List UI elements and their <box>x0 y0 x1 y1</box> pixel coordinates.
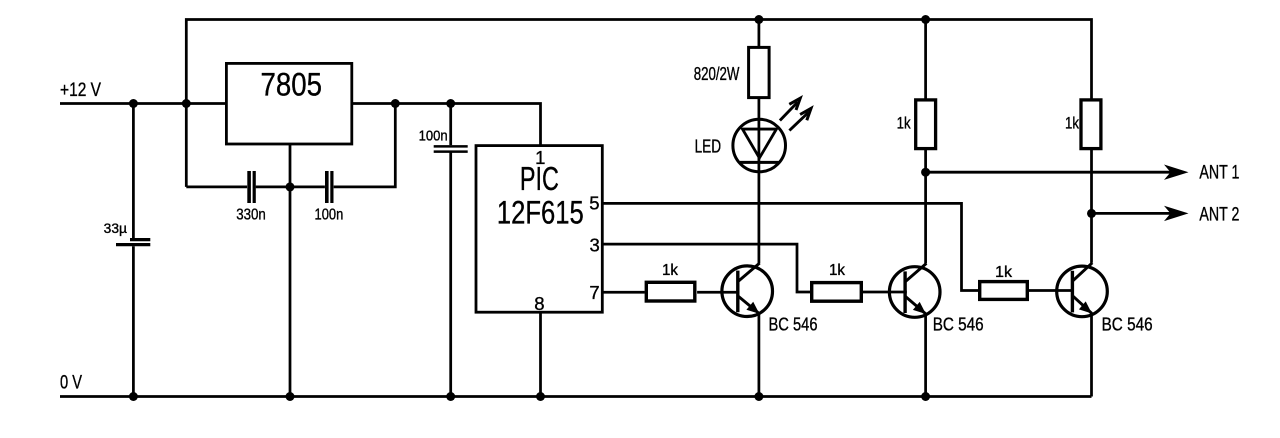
wire 7805 ground pin <box>289 144 292 397</box>
wire ANT2 output <box>1092 205 1240 226</box>
svg-text:BC 546: BC 546 <box>769 313 818 334</box>
capacitor C1 33µ <box>104 221 151 245</box>
transistor Q3 BC546 <box>1057 263 1153 335</box>
svg-text:7: 7 <box>589 282 599 303</box>
svg-text:ANT 2: ANT 2 <box>1199 205 1239 226</box>
junction dot at bypass rail / ground pin <box>286 182 295 191</box>
wire PIC pin5 to Q3 base resistor <box>602 203 978 290</box>
svg-text:12F615: 12F615 <box>497 194 584 230</box>
wire R4 to Q3 base <box>1029 289 1074 292</box>
wire LED cathode to Q1 collector <box>758 98 761 263</box>
svg-text:5: 5 <box>589 192 599 213</box>
svg-text:1k: 1k <box>829 262 846 279</box>
svg-text:1k: 1k <box>662 262 679 279</box>
junction dot ground / 33u <box>129 392 138 401</box>
resistor R3 1k (Q2 base) <box>812 262 862 301</box>
resistor R5 1k (ANT1 pullup) <box>897 100 936 149</box>
wire bypass rail under 7805 <box>186 186 247 189</box>
wire Q2 emitter to ground <box>924 314 927 397</box>
junction dot top rail / R5 branch <box>921 15 930 24</box>
junction dot at 7805 output / bypass <box>391 99 400 108</box>
svg-text:1k: 1k <box>995 264 1013 281</box>
LED light arrow 1 <box>780 98 800 120</box>
regulator 7805 <box>226 63 351 144</box>
wire Q2 collector <box>924 150 927 264</box>
wire bypass right segment <box>334 104 396 187</box>
svg-text:BC 546: BC 546 <box>933 314 984 335</box>
wire R3 to Q2 base <box>863 291 907 294</box>
junction dot ground / pin8 <box>536 392 545 401</box>
wire bypass mid segment <box>256 186 325 189</box>
wire 7805 output to PIC pin1 <box>352 104 541 146</box>
wire 100n decoupling upper <box>449 104 452 146</box>
svg-text:33µ: 33µ <box>104 221 128 236</box>
wire 100n decoupling lower <box>449 153 452 397</box>
svg-text:+12 V: +12 V <box>60 80 101 101</box>
junction dot ground / Q1 emitter <box>754 392 763 401</box>
svg-text:1k: 1k <box>1065 114 1079 133</box>
wire PIC pin8 to ground <box>539 312 542 396</box>
svg-text:BC 546: BC 546 <box>1102 314 1153 335</box>
junction dot at +12V / top rail branch <box>182 99 191 108</box>
junction dot ground / Q2 emitter <box>921 392 930 401</box>
resistor R2 1k (Q1 base) <box>646 262 695 301</box>
wire +12V input rail <box>60 102 226 105</box>
junction dot ANT2 tap <box>1087 209 1096 218</box>
wire Q1 emitter to ground <box>758 314 761 397</box>
resistor R6 1k (ANT2 pullup) <box>1065 100 1101 149</box>
svg-text:100n: 100n <box>315 206 344 223</box>
wire 33u branch lower <box>132 246 135 396</box>
wire ANT1 output <box>926 163 1240 184</box>
capacitor C2 330n <box>236 171 266 223</box>
junction dot at +12V / 33u <box>129 99 138 108</box>
svg-text:100n: 100n <box>419 127 448 144</box>
junction dot top rail / LED branch <box>754 15 763 24</box>
svg-text:330n: 330n <box>236 206 266 223</box>
junction dot ground / 7805 <box>286 392 295 401</box>
LED light arrow 2 <box>789 108 811 130</box>
svg-text:3: 3 <box>590 235 600 256</box>
wire top supply rail <box>186 20 1091 187</box>
svg-text:0 V: 0 V <box>60 372 82 393</box>
junction dot at 100n branch <box>446 99 455 108</box>
junction dot ground / 100n <box>446 392 455 401</box>
svg-text:1: 1 <box>535 147 545 168</box>
wire PIC pin7 to Q1 base resistor <box>602 291 645 294</box>
svg-text:8: 8 <box>534 293 544 314</box>
wire 33u branch upper <box>132 104 135 239</box>
wire LED anode vertical <box>758 20 761 47</box>
LED D1 <box>695 98 811 172</box>
svg-text:LED: LED <box>695 135 722 156</box>
svg-text:820/2W: 820/2W <box>694 63 740 84</box>
transistor Q1 BC546 <box>722 263 818 334</box>
wire PIC pin3 to Q2 base resistor <box>602 244 810 292</box>
wire R2 to Q1 base <box>697 291 739 294</box>
transistor Q2 BC546 <box>889 263 983 334</box>
svg-text:1k: 1k <box>897 114 911 133</box>
resistor R4 1k (Q3 base) <box>980 264 1028 299</box>
svg-text:ANT 1: ANT 1 <box>1199 163 1239 184</box>
capacitor C4 100n decoupling <box>419 127 468 151</box>
resistor 820/2W <box>694 47 769 97</box>
wire ground rail 0V <box>60 395 1092 398</box>
wire Q2 collector resistor to rail <box>924 20 927 100</box>
junction dot ANT1 tap <box>921 168 930 177</box>
IC U1 PIC 12F615 <box>476 146 602 314</box>
svg-text:7805: 7805 <box>261 67 323 103</box>
wire Q3 emitter to ground <box>1090 313 1093 396</box>
wire Q3 collector <box>1090 150 1093 263</box>
capacitor C3 100n <box>315 171 344 223</box>
